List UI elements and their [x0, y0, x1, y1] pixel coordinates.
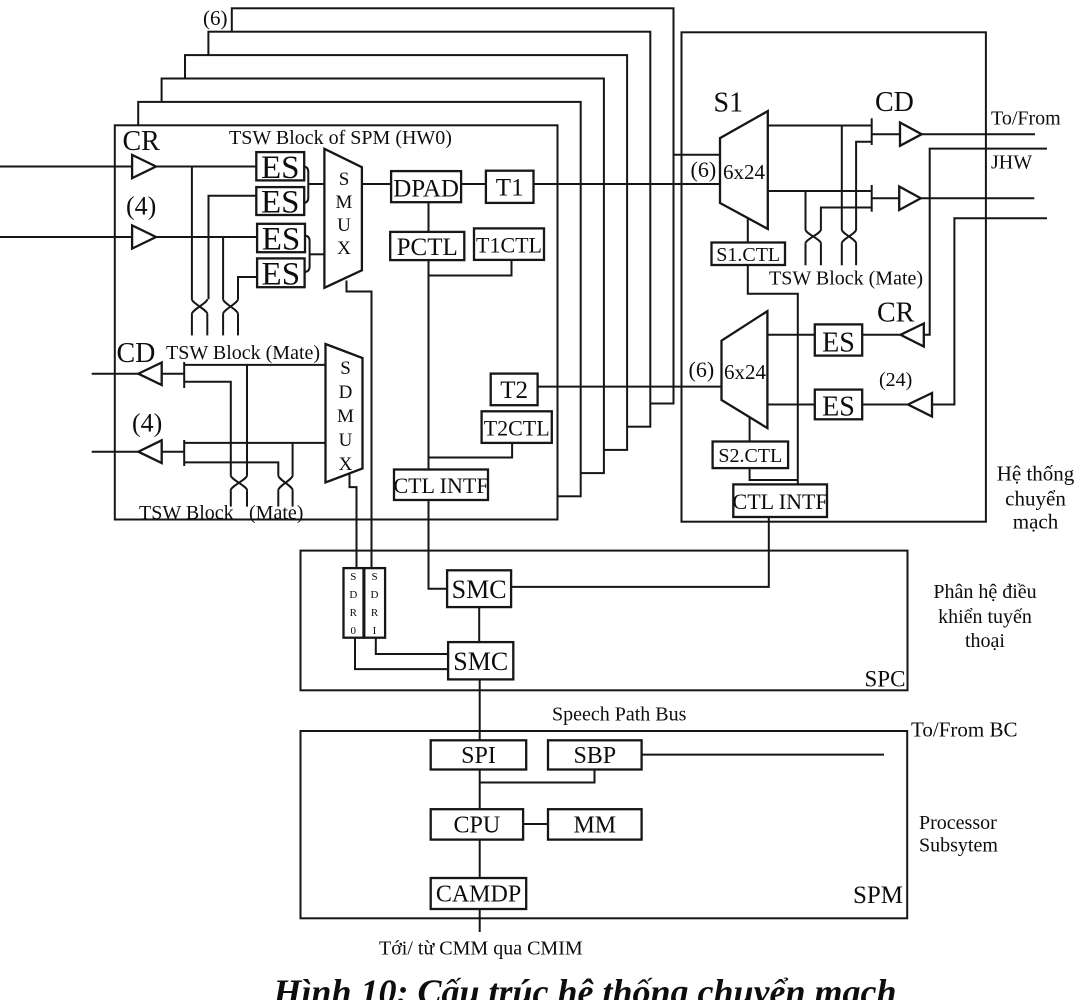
svg-text:To/From BC: To/From BC: [911, 718, 1017, 742]
svg-text:Phân hệ điều: Phân hệ điều: [933, 581, 1036, 603]
wire SDMUX tail to SDR0: [350, 474, 357, 569]
wire v3 drop from line2: [222, 237, 224, 299]
box T2CTL: [482, 411, 552, 443]
box ES right upper: [815, 324, 862, 355]
crossover lower-left pair 2: [278, 475, 292, 506]
svg-text:(4): (4): [132, 409, 162, 438]
svg-text:CAMDP: CAMDP: [436, 882, 521, 908]
wire CD1 link: [872, 133, 900, 135]
svg-text:6x24: 6x24: [723, 160, 766, 184]
svg-text:ES: ES: [261, 150, 300, 186]
box SDR1: [364, 568, 385, 638]
wire SMC1 to SMC2: [478, 607, 480, 642]
box MM: [548, 809, 642, 839]
wire CTL INTF left down to SMC1: [429, 500, 448, 589]
svg-text:X: X: [339, 454, 353, 475]
buffer CD output triangle 1: [138, 363, 161, 386]
box CAMDP: [431, 878, 527, 909]
wire S1 output 1: [768, 125, 872, 127]
svg-text:CTL INTF: CTL INTF: [393, 473, 488, 498]
svg-text:6x24: 6x24: [724, 360, 767, 384]
box PCTL: [390, 232, 464, 260]
wire SMUX to DPAD: [362, 183, 391, 185]
crossover right pair 2: [842, 230, 856, 266]
svg-text:chuyển: chuyển: [1005, 487, 1066, 511]
buffer CR input triangle 2: [132, 225, 156, 248]
svg-text:SPI: SPI: [461, 743, 496, 769]
svg-text:CR: CR: [123, 126, 161, 157]
box DPAD: [391, 171, 461, 202]
svg-text:JHW: JHW: [991, 152, 1032, 174]
svg-text:thoại: thoại: [965, 630, 1005, 652]
wire S2.CTL join control vertical: [750, 468, 798, 480]
crossover upper-left pair 2: [223, 299, 238, 335]
svg-text:T1: T1: [496, 175, 524, 202]
svg-text:SBP: SBP: [573, 743, 616, 769]
wire (6) bus stack to S1: [674, 154, 721, 156]
svg-text:CD: CD: [117, 338, 156, 369]
wire CD1 output To/From JHW: [922, 133, 1035, 135]
svg-text:SMC: SMC: [453, 647, 508, 676]
bar junction CD1 left: [183, 362, 185, 388]
wire S1.CTL to CTL INTF right: [748, 265, 798, 484]
svg-text:SPM: SPM: [853, 882, 903, 909]
svg-text:I: I: [373, 625, 377, 637]
svg-text:(4): (4): [126, 192, 156, 221]
box SDR0: [344, 568, 364, 638]
wire JHW return to (24) ES: [932, 218, 1047, 404]
svg-text:ES: ES: [822, 328, 855, 359]
svg-text:U: U: [339, 430, 353, 451]
wire S1 tail to S1.CTL: [747, 218, 749, 242]
wire input HW line 1: [0, 166, 257, 168]
wire ES2 feed horizontal: [209, 196, 257, 299]
wire CD triangle1 line: [92, 373, 185, 375]
crossover upper-left pair 1: [192, 299, 207, 335]
svg-text:TSW Block of SPM (HW0): TSW Block of SPM (HW0): [229, 127, 452, 149]
wire CD triangle2 line: [92, 451, 185, 453]
wire v11 drop to crossover: [805, 191, 807, 230]
svg-text:S: S: [371, 571, 377, 583]
svg-text:Speech Path Bus: Speech Path Bus: [552, 704, 687, 726]
svg-text:T2CTL: T2CTL: [484, 416, 550, 441]
svg-text:Subsytem: Subsytem: [919, 835, 998, 857]
svg-text:TSW Block (Mate): TSW Block (Mate): [769, 268, 923, 290]
svg-text:D: D: [371, 589, 379, 601]
svg-text:D: D: [339, 382, 353, 403]
svg-text:S: S: [339, 169, 350, 190]
wire DPAD to PCTL: [428, 202, 430, 232]
wire CPU to MM: [523, 823, 548, 825]
svg-text:(Mate): (Mate): [249, 502, 303, 524]
svg-text:R: R: [350, 607, 358, 619]
box CTL INTF right: [733, 484, 827, 517]
wire SDMUX input C: [184, 442, 325, 444]
box SMC 2: [448, 642, 513, 679]
box ES 3: [257, 224, 305, 252]
svg-text:T2: T2: [500, 377, 528, 404]
stacked TSW block outline 2: [138, 102, 581, 496]
svg-text:ES: ES: [262, 222, 301, 258]
svg-text:mạch: mạch: [1013, 510, 1059, 534]
wire SBP right to BC: [642, 754, 884, 756]
wire T1CTL drop to control line: [429, 260, 512, 276]
box S2.CTL: [713, 442, 789, 469]
svg-text:SMC: SMC: [452, 575, 507, 604]
wire CPU to CAMDP: [479, 840, 481, 878]
wire S2 tail to S2.CTL: [749, 417, 751, 441]
svg-text:Processor: Processor: [919, 812, 997, 834]
wire mate return to CD1: [856, 142, 872, 230]
wire S2 output 2 to ES: [767, 404, 814, 406]
wire line D to crossover: [184, 462, 278, 475]
svg-text:ES: ES: [822, 392, 855, 423]
svg-text:(6): (6): [689, 357, 715, 382]
buffer (24) right triangle: [908, 393, 932, 417]
svg-text:M: M: [336, 192, 353, 213]
svg-text:S: S: [340, 358, 351, 379]
stacked TSW block outline 6 (back): [232, 8, 674, 403]
buffer CD right triangle 1: [900, 123, 922, 146]
bracket ES pair 1: [303, 167, 308, 204]
wire SPI to CPU: [479, 770, 481, 810]
svg-text:T1CTL: T1CTL: [476, 233, 542, 258]
wire ES to CR triangle: [862, 334, 900, 336]
wire SMUX tail to SDR1: [347, 281, 372, 569]
box CTL INTF left: [394, 470, 488, 501]
wire PCTL down to CTL INTF: [428, 260, 430, 469]
wire CD2 link: [872, 197, 900, 199]
mux SDMUX trapezoid: [326, 344, 363, 483]
svg-text:(6): (6): [691, 157, 717, 182]
svg-text:(24): (24): [879, 369, 912, 391]
box ES 1: [256, 152, 304, 180]
wire mate return to CD2: [821, 208, 872, 230]
svg-text:Hệ thống: Hệ thống: [997, 462, 1075, 486]
box ES 2: [256, 187, 304, 215]
crossover right pair 1: [806, 230, 821, 266]
wire T2 out to S2: [538, 386, 722, 388]
wire ES pair1 tap to SMUX: [308, 183, 324, 185]
wire T2CTL drop to control line: [429, 443, 513, 458]
svg-text:S1.CTL: S1.CTL: [716, 244, 780, 266]
svg-text:DPAD: DPAD: [393, 176, 459, 203]
svg-text:CR: CR: [877, 298, 915, 329]
svg-text:ES: ES: [261, 185, 300, 221]
wire CD2 output JHW: [921, 197, 1035, 199]
svg-text:Hình 10: Cấu trúc hệ thống chu: Hình 10: Cấu trúc hệ thống chuyển mạch: [272, 972, 896, 1000]
block SPM: [301, 731, 908, 918]
buffer CD right triangle 2: [899, 187, 921, 211]
svg-text:R: R: [371, 607, 379, 619]
svg-text:(6): (6): [203, 6, 228, 30]
wire JHW return to CR: [924, 149, 1047, 335]
wire v8 from line C: [292, 443, 294, 476]
mux S1 trapezoid 6x24: [720, 111, 768, 229]
wire SBP drop to CPU bus: [480, 770, 595, 783]
box SPI: [431, 740, 527, 769]
svg-text:M: M: [337, 406, 354, 427]
mux S2 trapezoid 6x24: [722, 311, 768, 428]
wire ES pair2 tap to SMUX: [310, 253, 325, 255]
wire SDR1 out to SMC2: [376, 638, 448, 654]
svg-text:S2.CTL: S2.CTL: [718, 445, 782, 467]
box S1.CTL: [712, 243, 786, 266]
wire ES4 feed horizontal: [238, 277, 257, 299]
svg-text:TSW Block (Mate): TSW Block (Mate): [166, 342, 320, 364]
box ES right lower: [815, 390, 862, 420]
box ES 4: [257, 258, 305, 287]
block SPC: [301, 551, 908, 691]
svg-text:0: 0: [351, 625, 357, 637]
wire input HW line 2: [0, 236, 257, 238]
wire v6 from line A: [246, 365, 248, 476]
box SMC 1: [447, 570, 511, 607]
wire CAMDP down to CMIM: [479, 909, 481, 932]
wire DPAD to T1: [461, 183, 486, 185]
buffer CR input triangle 1: [132, 155, 156, 178]
svg-text:CD: CD: [875, 87, 914, 118]
wire SDR0 out to SMC2: [355, 638, 448, 669]
stacked TSW block outline 5: [208, 32, 650, 427]
svg-text:U: U: [337, 215, 351, 236]
stacked TSW block outline 3: [162, 79, 604, 474]
box SBP: [548, 740, 642, 769]
wire T1 to S1: [534, 183, 721, 185]
svg-text:D: D: [349, 589, 357, 601]
box T1CTL: [474, 228, 544, 260]
box T2: [491, 374, 538, 406]
box T1: [486, 171, 534, 203]
wire SDMUX input A: [184, 364, 325, 366]
svg-text:CTL INTF: CTL INTF: [733, 489, 828, 514]
svg-text:MM: MM: [573, 813, 616, 839]
box CPU: [431, 809, 523, 839]
wire v1 drop from line1: [191, 167, 193, 300]
buffer CR right triangle: [901, 324, 924, 347]
wire S1 output 2: [768, 190, 872, 192]
svg-text:PCTL: PCTL: [397, 234, 458, 261]
bar junction CD2 right: [871, 185, 873, 212]
wire ES to (24) triangle: [862, 404, 908, 406]
bracket ES pair 2: [304, 236, 310, 273]
wire SMC1 right to CTL INTF right: [511, 517, 769, 587]
svg-text:SPC: SPC: [865, 667, 906, 692]
wire v9 drop to crossover: [841, 126, 843, 230]
wire line B to crossover: [184, 382, 231, 476]
block TSW Block of SPM (HW0) main: [115, 125, 558, 519]
crossover lower-left pair 1: [231, 475, 247, 506]
wire S2 output 1 to ES: [767, 334, 814, 336]
svg-text:X: X: [337, 238, 351, 259]
wire SMC2 to SPI speech path bus: [479, 679, 481, 740]
svg-text:To/From: To/From: [991, 108, 1061, 130]
stacked TSW block outline 4: [185, 55, 627, 450]
mux SMUX trapezoid: [324, 149, 362, 288]
svg-text:S1: S1: [714, 88, 744, 119]
svg-text:Tới/ từ CMM qua CMIM: Tới/ từ CMM qua CMIM: [379, 938, 583, 960]
bar junction CD2 left: [183, 440, 185, 466]
svg-text:ES: ES: [262, 257, 301, 293]
svg-text:TSW Block: TSW Block: [139, 502, 234, 524]
block He thong chuyen mach (switching system, right): [682, 32, 986, 521]
bar junction CD1 right: [871, 118, 873, 145]
svg-text:S: S: [350, 571, 356, 583]
buffer CD output triangle 2: [138, 440, 161, 463]
svg-text:CPU: CPU: [454, 813, 501, 839]
svg-text:khiển tuyến: khiển tuyến: [938, 606, 1032, 628]
